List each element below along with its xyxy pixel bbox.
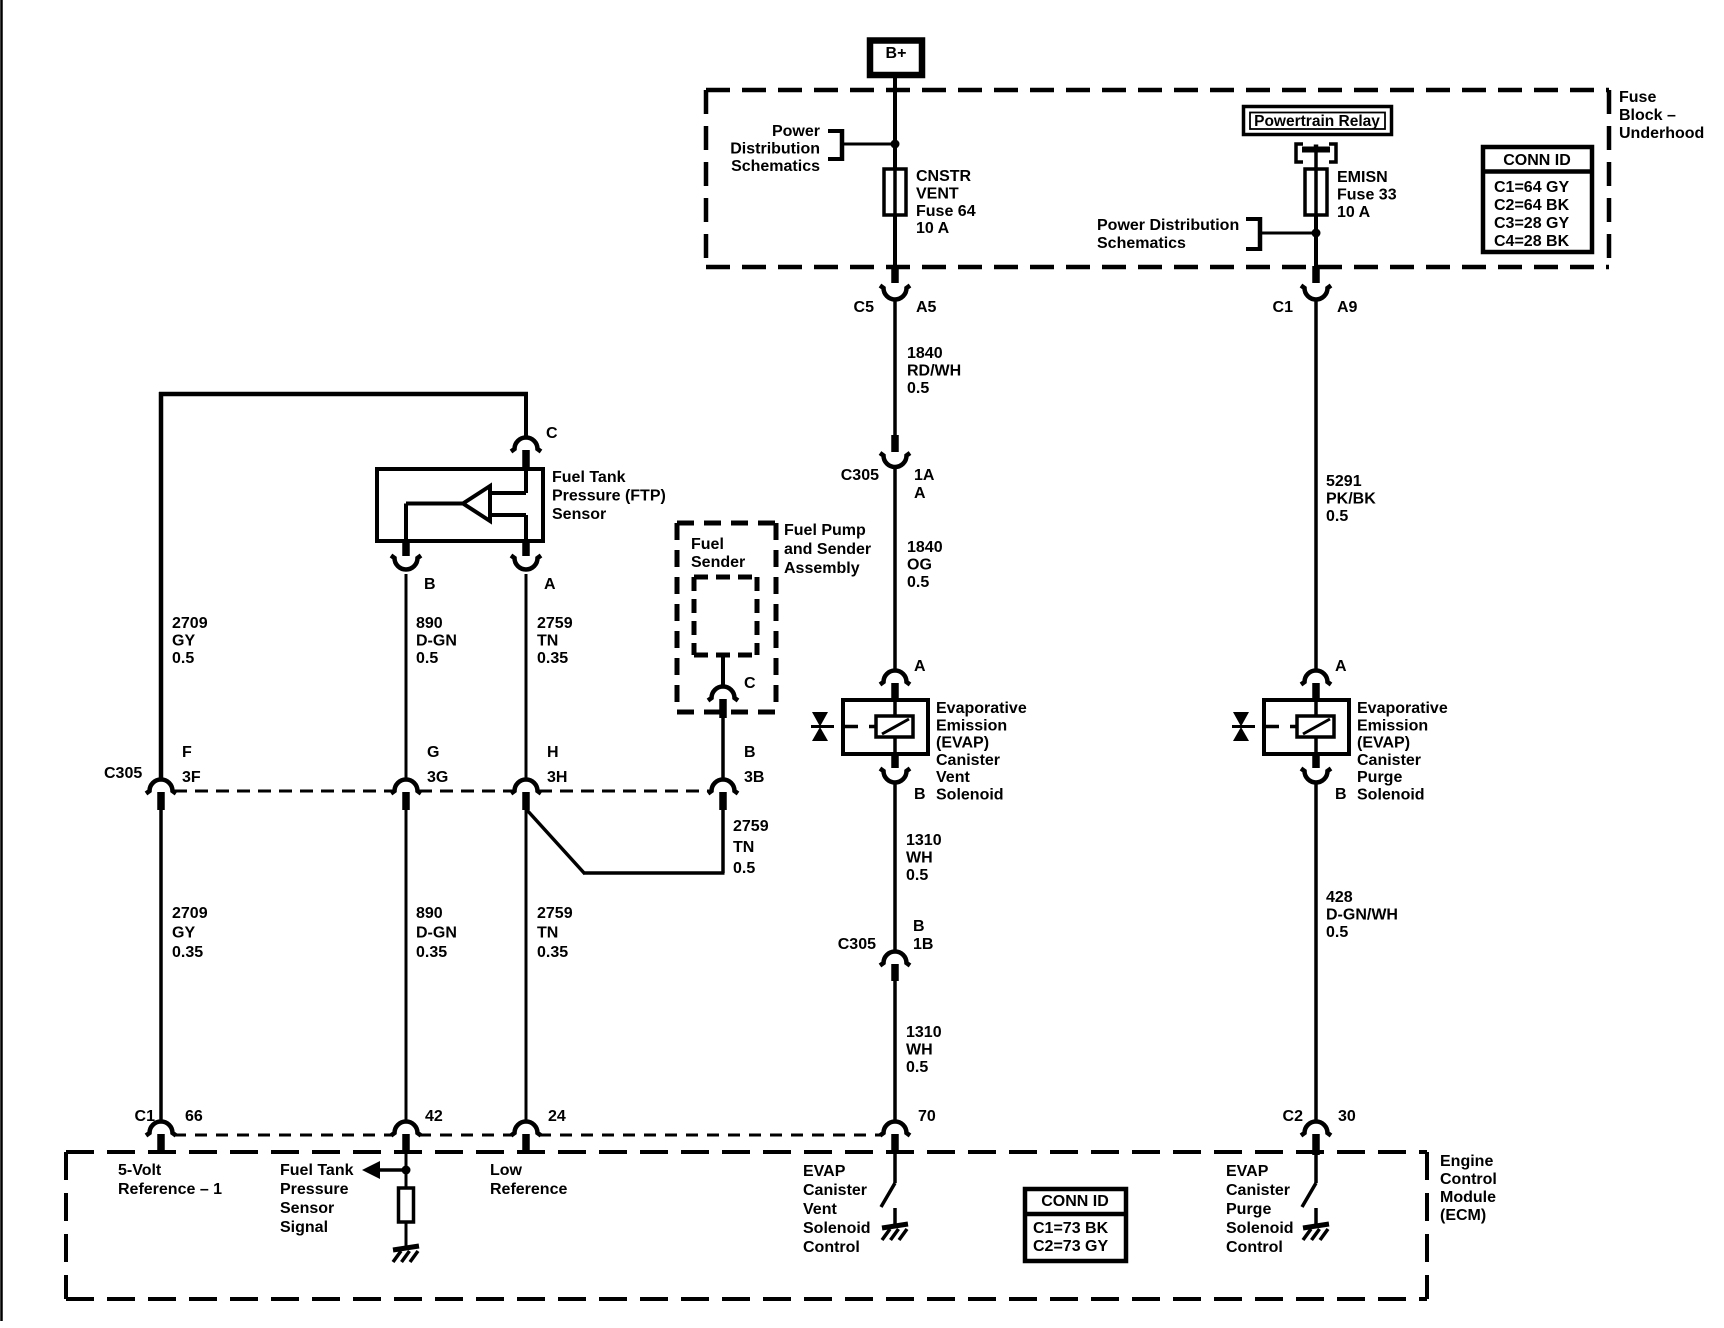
svg-text:5-Volt: 5-Volt (118, 1162, 162, 1179)
svg-text:30: 30 (1338, 1108, 1356, 1125)
svg-text:Fuse: Fuse (1619, 89, 1656, 106)
svg-text:Fuel Pump: Fuel Pump (784, 522, 866, 539)
svg-text:0.5: 0.5 (733, 860, 755, 877)
svg-text:2709: 2709 (172, 615, 208, 632)
svg-text:1310: 1310 (906, 832, 942, 849)
svg-text:B: B (914, 786, 926, 803)
svg-text:3B: 3B (744, 769, 764, 786)
svg-text:Evaporative: Evaporative (1357, 700, 1448, 717)
svg-text:WH: WH (906, 850, 933, 867)
svg-text:Solenoid: Solenoid (1226, 1220, 1294, 1237)
svg-text:Sensor: Sensor (552, 506, 606, 523)
svg-text:Reference: Reference (490, 1181, 567, 1198)
svg-text:0.5: 0.5 (906, 867, 928, 884)
svg-text:Canister: Canister (803, 1182, 867, 1199)
svg-text:0.5: 0.5 (907, 574, 929, 591)
svg-text:C2=64 BK: C2=64 BK (1494, 197, 1570, 214)
svg-text:Vent: Vent (936, 769, 970, 786)
svg-text:Vent: Vent (803, 1201, 837, 1218)
svg-text:3G: 3G (427, 769, 448, 786)
svg-text:Purge: Purge (1226, 1201, 1271, 1218)
svg-text:0.35: 0.35 (172, 944, 203, 961)
svg-text:Canister: Canister (1226, 1182, 1290, 1199)
svg-text:Low: Low (490, 1162, 523, 1179)
svg-text:2709: 2709 (172, 905, 208, 922)
svg-text:PK/BK: PK/BK (1326, 491, 1376, 508)
svg-text:0.5: 0.5 (416, 650, 438, 667)
svg-text:A5: A5 (916, 299, 937, 316)
svg-text:(EVAP): (EVAP) (1357, 735, 1410, 752)
svg-text:Pressure (FTP): Pressure (FTP) (552, 488, 666, 505)
svg-text:Block –: Block – (1619, 107, 1676, 124)
svg-text:GY: GY (172, 633, 195, 650)
svg-text:Solenoid: Solenoid (936, 787, 1004, 804)
svg-text:Fuel Tank: Fuel Tank (552, 469, 626, 486)
svg-text:890: 890 (416, 615, 443, 632)
svg-text:Signal: Signal (280, 1219, 328, 1236)
svg-text:EVAP: EVAP (1226, 1163, 1269, 1180)
svg-text:WH: WH (906, 1042, 933, 1059)
svg-text:0.35: 0.35 (416, 944, 447, 961)
svg-text:C2: C2 (1283, 1108, 1304, 1125)
svg-text:B: B (424, 576, 436, 593)
svg-text:OG: OG (907, 557, 932, 574)
svg-text:Sender: Sender (691, 554, 745, 571)
svg-text:H: H (547, 744, 559, 761)
svg-text:Schematics: Schematics (731, 158, 820, 175)
svg-text:Module: Module (1440, 1189, 1496, 1206)
svg-text:RD/WH: RD/WH (907, 363, 961, 380)
svg-text:0.5: 0.5 (1326, 924, 1348, 941)
svg-text:CNSTR: CNSTR (916, 168, 972, 185)
svg-text:C1: C1 (135, 1108, 156, 1125)
svg-text:C1: C1 (1273, 299, 1294, 316)
svg-text:Canister: Canister (936, 752, 1000, 769)
svg-text:B: B (744, 744, 756, 761)
svg-text:EVAP: EVAP (803, 1163, 846, 1180)
svg-text:C305: C305 (841, 467, 879, 484)
svg-text:C305: C305 (104, 765, 142, 782)
svg-text:G: G (427, 744, 439, 761)
svg-text:Power: Power (772, 123, 820, 140)
svg-text:B: B (913, 918, 925, 935)
svg-text:0.5: 0.5 (1326, 508, 1348, 525)
svg-text:Emission: Emission (936, 717, 1007, 734)
svg-text:CONN ID: CONN ID (1503, 152, 1571, 169)
svg-text:70: 70 (918, 1108, 936, 1125)
svg-text:3H: 3H (547, 769, 567, 786)
svg-text:TN: TN (733, 839, 754, 856)
svg-text:10 A: 10 A (1337, 204, 1371, 221)
svg-text:3F: 3F (182, 769, 201, 786)
svg-text:C1=64 GY: C1=64 GY (1494, 179, 1569, 196)
svg-text:TN: TN (537, 633, 558, 650)
svg-text:Distribution: Distribution (730, 141, 820, 158)
svg-text:Canister: Canister (1357, 752, 1421, 769)
svg-text:Solenoid: Solenoid (803, 1220, 871, 1237)
svg-text:C: C (546, 425, 558, 442)
svg-text:EMISN: EMISN (1337, 169, 1388, 186)
svg-text:Purge: Purge (1357, 769, 1402, 786)
svg-text:428: 428 (1326, 889, 1353, 906)
svg-text:Powertrain Relay: Powertrain Relay (1254, 113, 1380, 130)
svg-text:Reference – 1: Reference – 1 (118, 1181, 222, 1198)
svg-text:24: 24 (548, 1108, 566, 1125)
svg-text:F: F (182, 744, 192, 761)
svg-text:A: A (914, 485, 926, 502)
svg-text:Assembly: Assembly (784, 560, 860, 577)
svg-text:A: A (1335, 658, 1347, 675)
svg-text:Engine: Engine (1440, 1153, 1493, 1170)
svg-text:2759: 2759 (537, 905, 573, 922)
svg-text:C305: C305 (838, 936, 876, 953)
svg-text:Control: Control (803, 1239, 860, 1256)
svg-text:1840: 1840 (907, 539, 943, 556)
svg-text:1B: 1B (913, 936, 933, 953)
svg-text:D-GN: D-GN (416, 633, 457, 650)
svg-text:(ECM): (ECM) (1440, 1207, 1486, 1224)
svg-text:Fuel Tank: Fuel Tank (280, 1162, 354, 1179)
svg-text:(EVAP): (EVAP) (936, 735, 989, 752)
svg-text:890: 890 (416, 905, 443, 922)
svg-text:Emission: Emission (1357, 717, 1428, 734)
svg-text:C1=73 BK: C1=73 BK (1033, 1220, 1109, 1237)
svg-text:CONN ID: CONN ID (1041, 1193, 1109, 1210)
svg-text:1310: 1310 (906, 1024, 942, 1041)
svg-text:Schematics: Schematics (1097, 235, 1186, 252)
svg-text:GY: GY (172, 925, 195, 942)
svg-text:42: 42 (425, 1108, 443, 1125)
svg-text:0.5: 0.5 (172, 650, 194, 667)
svg-text:A: A (914, 658, 926, 675)
svg-text:Power Distribution: Power Distribution (1097, 217, 1239, 234)
svg-text:66: 66 (185, 1108, 203, 1125)
svg-text:Solenoid: Solenoid (1357, 787, 1425, 804)
svg-text:Fuse 33: Fuse 33 (1337, 186, 1397, 203)
svg-text:Underhood: Underhood (1619, 125, 1704, 142)
svg-text:A9: A9 (1337, 299, 1358, 316)
svg-text:TN: TN (537, 925, 558, 942)
svg-text:C: C (744, 675, 756, 692)
svg-text:and Sender: and Sender (784, 541, 871, 558)
svg-text:1840: 1840 (907, 345, 943, 362)
svg-text:C5: C5 (854, 299, 875, 316)
svg-text:D-GN: D-GN (416, 925, 457, 942)
svg-text:Control: Control (1226, 1239, 1283, 1256)
svg-text:D-GN/WH: D-GN/WH (1326, 907, 1398, 924)
svg-text:2759: 2759 (537, 615, 573, 632)
svg-text:Sensor: Sensor (280, 1200, 334, 1217)
svg-text:0.5: 0.5 (907, 380, 929, 397)
svg-text:Fuse 64: Fuse 64 (916, 203, 976, 220)
svg-text:0.35: 0.35 (537, 650, 568, 667)
svg-text:Control: Control (1440, 1171, 1497, 1188)
svg-text:B+: B+ (886, 45, 907, 62)
svg-text:VENT: VENT (916, 185, 959, 202)
svg-text:Pressure: Pressure (280, 1181, 349, 1198)
svg-text:C4=28 BK: C4=28 BK (1494, 233, 1570, 250)
svg-text:1A: 1A (914, 467, 935, 484)
svg-text:10 A: 10 A (916, 220, 950, 237)
svg-text:A: A (544, 576, 556, 593)
svg-text:2759: 2759 (733, 818, 769, 835)
svg-text:C3=28 GY: C3=28 GY (1494, 215, 1569, 232)
svg-text:C2=73 GY: C2=73 GY (1033, 1238, 1108, 1255)
svg-text:Fuel: Fuel (691, 536, 724, 553)
svg-text:5291: 5291 (1326, 473, 1362, 490)
svg-text:Evaporative: Evaporative (936, 700, 1027, 717)
svg-text:0.5: 0.5 (906, 1059, 928, 1076)
svg-text:B: B (1335, 786, 1347, 803)
svg-text:0.35: 0.35 (537, 944, 568, 961)
